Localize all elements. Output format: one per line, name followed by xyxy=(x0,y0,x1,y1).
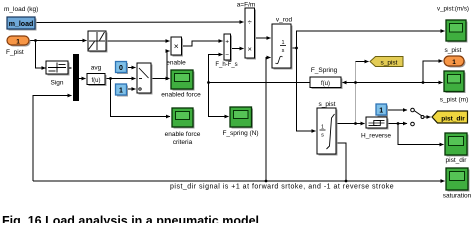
svg-text:F_spring (N): F_spring (N) xyxy=(222,130,258,137)
svg-text:Fig. 16 Load analysis in a pne: Fig. 16 Load analysis in a pneumatic mod… xyxy=(2,214,259,223)
svg-text:v_pist:(m/s): v_pist:(m/s) xyxy=(437,6,469,13)
svg-text:pist_dir signal is +1 at forwa: pist_dir signal is +1 at forward srtoke,… xyxy=(170,184,394,191)
svg-text:avg: avg xyxy=(91,65,102,72)
svg-text:+: + xyxy=(225,39,229,46)
svg-text:s_pist: s_pist xyxy=(381,60,398,67)
svg-text:F_Spring: F_Spring xyxy=(311,67,338,74)
svg-text:1: 1 xyxy=(16,39,20,46)
svg-text:f(u): f(u) xyxy=(92,78,101,84)
svg-text:÷: ÷ xyxy=(248,18,252,27)
svg-text:s: s xyxy=(321,133,324,139)
svg-text:1: 1 xyxy=(119,88,123,95)
svg-text:−: − xyxy=(225,52,229,59)
svg-text:pist_dir: pist_dir xyxy=(441,116,465,123)
svg-text:s_pist: s_pist xyxy=(445,47,462,54)
svg-text:H_reverse: H_reverse xyxy=(361,133,391,140)
svg-text:Sign: Sign xyxy=(50,80,63,87)
svg-text:s: s xyxy=(282,48,285,54)
svg-text:v_rod: v_rod xyxy=(276,17,293,24)
svg-text:m_load (kg): m_load (kg) xyxy=(4,6,38,13)
svg-text:criteria: criteria xyxy=(173,139,193,146)
svg-text:F_pist: F_pist xyxy=(6,49,24,56)
svg-text:1: 1 xyxy=(379,108,383,115)
svg-text:f(u): f(u) xyxy=(321,81,330,87)
svg-text:×: × xyxy=(174,41,179,51)
svg-text:×: × xyxy=(248,45,252,54)
svg-text:enable: enable xyxy=(166,60,186,67)
svg-text:a=F/m: a=F/m xyxy=(237,2,256,9)
svg-text:enable force: enable force xyxy=(165,131,201,138)
svg-text:pist_dir: pist_dir xyxy=(446,157,468,164)
svg-text:m_load: m_load xyxy=(9,21,34,28)
svg-text:enabled force: enabled force xyxy=(161,92,201,99)
svg-text:s_pist (m): s_pist (m) xyxy=(440,97,469,104)
svg-text:1: 1 xyxy=(452,59,456,66)
svg-text:saturation: saturation xyxy=(443,193,472,200)
svg-text:F_h-F_s: F_h-F_s xyxy=(215,62,237,68)
svg-text:s_pist: s_pist xyxy=(319,101,336,108)
svg-text:0: 0 xyxy=(119,65,123,72)
